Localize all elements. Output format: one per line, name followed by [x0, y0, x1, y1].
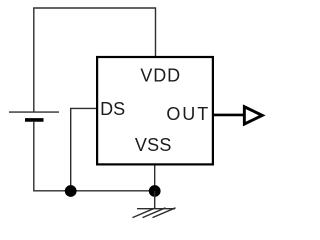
wire VSS pin to ground rail [154, 165, 156, 191]
wire junction to ground symbol [154, 191, 156, 209]
wire DS pin to ground rail [71, 108, 97, 190]
svg-text:VSS: VSS [135, 135, 172, 155]
wire battery negative to ground rail [34, 122, 155, 191]
junction dot at VSS/ground rail [149, 185, 161, 197]
svg-text:OUT: OUT [166, 104, 210, 124]
svg-text:DS: DS [100, 99, 125, 119]
junction dot at DS/ground rail [65, 185, 77, 197]
wire OUT pin to buffer [213, 114, 244, 117]
output buffer arrow [243, 104, 266, 126]
wire VDD supply: battery + up and over to VDD pin [34, 8, 156, 112]
battery B1 positive plate [9, 111, 59, 113]
IC U1 body [97, 57, 213, 164]
ground symbol [133, 208, 176, 218]
svg-text:VDD: VDD [140, 66, 181, 86]
battery B1 negative plate [25, 118, 44, 122]
